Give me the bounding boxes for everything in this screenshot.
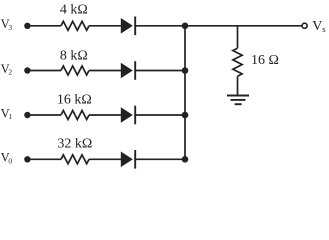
svg-text:32 kΩ: 32 kΩ bbox=[57, 136, 92, 151]
svg-text:1: 1 bbox=[8, 112, 12, 121]
svg-text:V: V bbox=[312, 19, 322, 34]
svg-text:4 kΩ: 4 kΩ bbox=[60, 3, 88, 18]
svg-text:3: 3 bbox=[8, 23, 12, 32]
svg-text:16 kΩ: 16 kΩ bbox=[57, 92, 92, 107]
svg-text:2: 2 bbox=[8, 68, 12, 77]
svg-text:0: 0 bbox=[8, 157, 12, 166]
svg-text:16 Ω: 16 Ω bbox=[251, 53, 279, 68]
svg-text:8 kΩ: 8 kΩ bbox=[60, 48, 88, 63]
